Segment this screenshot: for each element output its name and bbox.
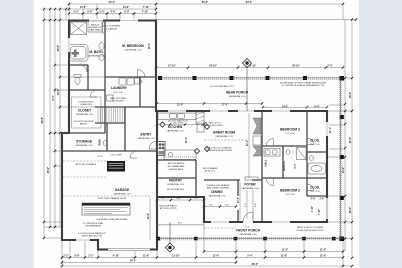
windows (white gaps w/ thin lines on walls) [68,19,328,241]
right dim line 1 [344,20,346,252]
mbath toilet [99,43,104,50]
svg-text:ABOVE: ABOVE [80,123,88,126]
diamond island [194,148,199,153]
foyer niche [245,177,258,180]
porch columns [157,76,345,241]
laundry sink cab [135,78,140,84]
ticks bottom row2 [61,256,344,258]
svg-text:7'-4": 7'-4" [327,65,332,68]
svg-text:25'-4": 25'-4" [57,45,60,52]
svg-text:11'-0": 11'-0" [281,255,287,258]
closet door arc [90,90,97,97]
wall: mbedroom south [105,76,156,78]
great room interior dim line [248,113,250,178]
bath3 toilet [286,149,290,154]
window bedroom2 front [272,221,290,223]
svg-text:11'-0": 11'-0" [320,255,326,258]
svg-text:13'-4": 13'-4" [57,89,60,96]
svg-text:CATHEDRAL CLG: CATHEDRAL CLG [75,144,93,147]
pwr toilet [103,140,107,145]
svg-text:CLOS.: CLOS. [310,139,320,143]
exterior wall: rear (great room + bedroom wing) [156,110,328,112]
foyer interior dim line [239,182,241,220]
tub faucet [72,50,80,58]
window garage front [76,239,90,241]
svg-text:17'-10": 17'-10" [168,65,176,68]
diamond marker front porch [166,222,175,252]
diamond kitchen right [204,124,209,129]
wall: laundry east [139,77,141,107]
svg-text:HALL: HALL [264,159,268,166]
foyer dim v3 [252,190,254,219]
svg-text:20'-2": 20'-2" [247,140,249,146]
column NE corner [340,76,345,81]
left dim line 5 [65,9,67,20]
svg-text:9'-0" CLG: 9'-0" CLG [286,133,295,135]
keynote diamonds kitchen [160,122,210,154]
svg-text:17'-0": 17'-0" [222,103,229,106]
kitchen inner dim row [157,124,204,126]
svg-text:WOOD SHELVES: WOOD SHELVES [167,189,184,191]
svg-text:FOYER: FOYER [244,183,256,187]
diamond kitchen wall [160,122,165,127]
wall: pwr east [106,123,108,151]
ticks bottom row1 [203,250,344,252]
svg-text:12'-4": 12'-4" [329,127,332,133]
mbath linen cab [103,22,106,33]
wall: entry west [124,107,126,151]
top extension verticals [68,4,70,20]
column east 3 [340,196,344,200]
svg-text:LAUNDRY: LAUNDRY [111,86,128,90]
wall: dining/foyer divider lower [237,210,239,222]
top dim line row1 [69,3,343,5]
svg-text:5'-4": 5'-4" [245,226,249,228]
front door arc [243,212,253,222]
column SE corner [340,237,345,242]
svg-text:BRICK & ROCK COLUMNS: BRICK & ROCK COLUMNS [297,227,323,229]
mbath note box [88,22,102,33]
wall: bedrooms east divider [306,111,308,196]
svg-text:34'-0": 34'-0" [246,1,253,4]
svg-text:KITCHEN: KITCHEN [168,125,183,129]
exterior wall: garage step [97,239,99,251]
svg-text:CATHEDRAL CLG: CATHEDRAL CLG [208,195,226,198]
svg-text:ATTIC A/C FURNACE: ATTIC A/C FURNACE [76,163,97,166]
svg-text:2'-2": 2'-2" [63,255,68,258]
svg-text:6'-8": 6'-8" [255,203,257,207]
svg-text:86'-0": 86'-0" [252,263,259,266]
svg-text:AT PORCH (TYP): AT PORCH (TYP) [160,207,177,210]
bath2 toilet [310,155,314,160]
wall: toilet room east [87,65,89,90]
column rear 2 [193,76,197,80]
svg-text:CATHEDRAL CLG: CATHEDRAL CLG [124,49,142,52]
entry kitchen arc [149,141,157,149]
diamond marker rear porch [243,59,252,112]
ticks left top header [43,8,67,10]
bottom dim line 3 [62,262,236,264]
window mbath north [89,19,103,21]
porch step line [157,224,204,226]
mbath sink [99,55,104,61]
svg-text:5'-0": 5'-0" [295,164,297,169]
svg-text:26'-0": 26'-0" [349,207,352,214]
wall: mbath south / toilet room [69,64,88,66]
svg-text:24'-4": 24'-4" [130,260,137,263]
left dim line 3 [54,9,56,227]
front porch inner step [157,224,204,226]
svg-text:6'-0": 6'-0" [124,11,129,14]
wall: mbath/mbedroom divider [104,20,106,133]
foyer porch dashes [204,227,236,229]
bath3 shower [297,148,307,160]
svg-text:STORAGE: STORAGE [76,140,93,144]
svg-text:RAIN HEAD: RAIN HEAD [89,29,101,32]
column front 6 [332,237,336,241]
island [164,150,196,160]
svg-text:16'x8' OVHD GARAGE DOOR: 16'x8' OVHD GARAGE DOOR [98,197,127,200]
bottom dim line 2 [62,257,343,259]
bedroom dim row line [262,106,327,108]
column front 3 [234,237,238,241]
interior dim rows [150,68,343,241]
exterior wall: garage south-west [61,239,98,241]
column rear 3 [230,76,234,80]
svg-text:6'-4": 6'-4" [314,105,319,108]
ticks top row3 [68,12,157,14]
rotated interior dims [148,43,332,219]
wall: pantry east [195,160,197,197]
column front 1 [157,237,161,241]
left dim line 2 [49,9,51,227]
svg-text:GARAGE: GARAGE [115,188,130,192]
wall: storage south / garage north [62,150,157,152]
toilet room door arc [80,65,87,72]
wall: closet north [69,89,105,91]
svg-text:14'-8": 14'-8" [282,105,289,108]
svg-text:4'-10": 4'-10" [113,255,120,258]
ticks top row1 [68,3,344,5]
svg-text:BRICK ABOVE (TYP): BRICK ABOVE (TYP) [82,235,102,238]
svg-text:2'-0": 2'-0" [161,198,165,200]
svg-text:2'-8": 2'-8" [320,199,325,201]
svg-text:CATHEDRAL CLG: CATHEDRAL CLG [166,130,184,133]
tub [69,45,89,62]
wc toilet [75,78,80,85]
ticks dining bay row [203,205,237,207]
svg-text:W/ SPLASH: W/ SPLASH [112,100,124,103]
svg-text:9'-0" CLG: 9'-0" CLG [311,144,320,146]
exterior wall: garage front right pier [150,248,158,250]
window greatroom rear 2 [210,110,228,112]
svg-text:5'-0": 5'-0" [99,11,104,14]
window greatroom rear 1 [168,110,186,112]
wall: laundry south [95,106,156,108]
extension dining bay [203,223,205,252]
right extension horizontals [327,110,352,112]
svg-text:FIREPLACE W/ BLOCKING: FIREPLACE W/ BLOCKING [206,149,232,152]
svg-text:GREAT ROOM: GREAT ROOM [213,131,235,135]
svg-text:BEDROOM 2: BEDROOM 2 [280,189,300,193]
ticks left column [43,19,45,239]
entry garage door arc [130,151,137,158]
svg-text:CATHEDRAL CLG: CATHEDRAL CLG [87,55,105,58]
svg-text:9'-0" CLG: 9'-0" CLG [114,92,123,94]
column east 2 [340,155,344,159]
svg-text:11'-10": 11'-10" [172,255,180,258]
svg-text:CATHEDRAL CLG: CATHEDRAL CLG [137,137,155,140]
fireplace [253,136,261,145]
svg-text:16'-2": 16'-2" [149,43,151,49]
wall: bath3 south / bedroom2 north [262,177,327,179]
left extension horizontals [44,19,69,21]
svg-text:8'-10": 8'-10" [250,65,257,68]
wall: hall/greatroom east [261,111,263,222]
svg-text:10'x14' COFFERED: 10'x14' COFFERED [102,26,121,28]
svg-text:CLOSET: CLOSET [78,109,91,113]
svg-text:CATHEDRAL CLG: CATHEDRAL CLG [239,233,257,236]
svg-text:SHIPLAP BACK: SHIPLAP BACK [169,168,185,171]
svg-text:3'-0": 3'-0" [245,203,247,207]
east porch slab edge [339,77,341,240]
pantry dim row [157,199,204,201]
column front 5 [302,237,306,241]
exterior wall: master block east [155,20,157,113]
ticks pantry row [156,199,205,201]
top dim line row2 [69,8,156,10]
wall: mud south [157,159,196,161]
svg-text:BEDROOM 3: BEDROOM 3 [280,128,300,132]
svg-text:THICKENED SLAB (SEE DETAIL): THICKENED SLAB (SEE DETAIL) [96,218,128,221]
bath2 tub [308,163,326,174]
svg-text:CATHEDRAL CLG: CATHEDRAL CLG [228,95,246,98]
svg-text:4'-0": 4'-0" [73,11,78,14]
bottom dim line 4 [62,265,352,267]
svg-text:12'-4": 12'-4" [177,103,184,106]
exterior wall: garage front left pier [97,248,108,250]
exterior wall: east [326,110,328,198]
svg-text:CATHEDRAL CLG: CATHEDRAL CLG [113,193,131,196]
diamond great room [204,146,209,151]
svg-text:7'-10": 7'-10" [142,11,149,14]
svg-text:AT 48" O.C.: AT 48" O.C. [205,170,216,173]
svg-text:4'-4": 4'-4" [110,11,115,14]
column rear 5 [303,76,307,80]
svg-text:BATH 3: BATH 3 [282,161,286,171]
wall: dining/foyer divider upper [237,180,239,196]
column rear 1 [158,76,162,80]
exterior wall: pantry south [156,196,204,198]
svg-text:56'-8": 56'-8" [202,1,209,4]
svg-text:13'-2": 13'-2" [186,137,188,143]
wall: clos2 south [307,195,327,197]
front door opening [243,221,253,223]
ticks rear porch dim row [155,66,344,68]
window east bay [326,198,328,219]
bottom dim line 1 [204,251,343,253]
great room builtin lower [253,146,261,156]
exterior wall: east corner stub [326,219,328,223]
svg-text:& SHELVES: & SHELVES [80,104,92,106]
svg-text:M. BEDROOM: M. BEDROOM [122,44,144,48]
rear porch dim row line [156,67,343,69]
front porch slab edge [157,237,344,239]
garage interior dim line [149,198,151,240]
window dining front [211,221,229,223]
svg-text:8'-0": 8'-0" [178,223,182,225]
column front 4 [263,237,267,241]
bedroom2 door arc [266,178,274,186]
closet shelf inset [72,97,102,128]
svg-text:(2) 2x12 HDR ABV (TYP): (2) 2x12 HDR ABV (TYP) [210,85,234,88]
exterior wall: left upper [68,20,70,135]
svg-text:14'-8": 14'-8" [123,6,130,9]
window bedroom3 rear [272,110,290,112]
svg-text:PWR.: PWR. [98,138,102,145]
wall: bedroom3 south [262,145,307,147]
svg-text:CATHEDRAL CLG: CATHEDRAL CLG [76,113,94,116]
svg-text:REAR PORCH: REAR PORCH [226,91,249,95]
svg-text:2'-2": 2'-2" [88,255,93,258]
svg-text:5'-8": 5'-8" [74,255,79,258]
ticks bottom row4 [61,265,353,267]
entry closet hatch [98,108,124,122]
svg-text:29'-10": 29'-10" [292,65,300,68]
exterior wall: garage east / porch west [156,110,158,251]
svg-text:STONE CAP W/ 10x10 POST: STONE CAP W/ 10x10 POST [296,229,324,232]
svg-text:66'-8": 66'-8" [41,117,44,124]
laundry cab [107,95,114,101]
svg-text:ENTRY: ENTRY [141,133,153,137]
svg-text:CLG ABOVE: CLG ABOVE [105,28,118,31]
right dim line 2 [351,20,353,259]
svg-text:5 3/4" STEP: 5 3/4" STEP [110,155,122,157]
svg-text:DINING: DINING [211,190,223,194]
svg-text:CLOS.: CLOS. [310,186,320,190]
wall: bath3 divider [282,146,284,178]
svg-text:10'-8": 10'-8" [80,6,87,9]
great room builtin upper [253,118,261,134]
foyer dim v2 [246,190,248,219]
svg-text:PANTRY: PANTRY [169,179,183,183]
left dim line 4 [59,9,61,227]
window mbedroom west [68,38,70,52]
mbedroom door arc [138,70,146,78]
exterior wall: master block north [68,19,157,21]
garage note box [82,203,130,215]
garage keynote black box [107,161,125,172]
shower [71,22,87,35]
kitchen fridge hatched [196,112,204,132]
svg-text:OUTLET & BLOCKING: OUTLET & BLOCKING [201,125,223,127]
dining bay dim row [204,206,236,208]
ticks kitchen inner row [156,123,205,125]
porch beam lines [156,78,343,239]
wall: kitchen/pantry divider [157,177,196,179]
kitchen range [158,142,166,156]
svg-text:6'-2": 6'-2" [225,205,229,207]
column rear 4 [266,76,270,80]
dimension tick marks [43,3,357,267]
clos2 door arc [307,184,314,191]
exterior wall: storage step [62,132,70,134]
exterior wall: front [203,221,327,223]
laundry washer dryer [119,78,126,85]
svg-text:W/ CUBBIES ABV: W/ CUBBIES ABV [168,165,185,168]
svg-text:22'-4": 22'-4" [349,137,352,144]
ticks bottom row3 [61,261,237,263]
great room ceiling dashed [204,139,246,141]
svg-text:CATHEDRAL CLG: CATHEDRAL CLG [241,187,259,190]
column front 2 [194,237,198,241]
svg-text:4" CONCRETE SLAB W/ FIBERMESH: 4" CONCRETE SLAB W/ FIBERMESH (TYP) [282,84,324,87]
svg-text:7'-10": 7'-10" [143,6,150,9]
svg-text:FRONT PORCH: FRONT PORCH [236,229,260,233]
svg-text:25'-4": 25'-4" [109,1,116,4]
svg-text:18'-4": 18'-4" [349,92,352,99]
svg-text:7'-10": 7'-10" [319,209,321,215]
svg-text:2'-0": 2'-0" [311,199,316,201]
exterior wall: dining bay west [203,196,205,223]
window mbedroom north [120,19,138,21]
svg-text:CATHEDRAL CLG: CATHEDRAL CLG [215,135,233,138]
exterior wall: garage west [61,132,63,241]
bottom extension verticals [61,240,63,266]
window east wall [326,122,328,136]
svg-text:9'-0" CLG: 9'-0" CLG [286,194,295,196]
svg-text:22'-8": 22'-8" [148,213,150,219]
bath3 vanity [264,149,280,157]
svg-text:22'-4": 22'-4" [97,156,103,158]
svg-text:6'-8": 6'-8" [87,11,92,14]
left dim line 1 [43,9,45,238]
svg-text:5'-4": 5'-4" [247,255,252,258]
svg-text:11'-0": 11'-0" [320,249,326,252]
left dim top ticks row [44,8,69,10]
window greatroom rear 3 [238,110,254,112]
svg-text:8'-4": 8'-4" [52,95,55,100]
ticks top row2 [68,8,157,10]
svg-text:BUILT-IN BENCH: BUILT-IN BENCH [168,163,185,165]
garage door opening [108,249,150,251]
svg-text:ABV CASED OPENING: ABV CASED OPENING [207,187,229,190]
svg-text:4'-10": 4'-10" [311,206,314,212]
garage ceiling dashed lines [63,140,246,228]
wall: clos3 south [307,151,327,153]
svg-text:11'-0": 11'-0" [282,249,288,252]
svg-text:UNO (TYP): UNO (TYP) [173,123,184,125]
ticks bedroom dim row [262,106,328,108]
wall: dining/greatroom divider column [204,179,240,181]
kitchen counter [158,113,196,120]
column east 1 [340,115,344,119]
svg-text:CATHEDRAL CLG: CATHEDRAL CLG [167,183,185,186]
ticks kitchen dim row [156,102,263,104]
svg-text:24'-10": 24'-10" [209,65,217,68]
svg-text:9'-0" CLG: 9'-0" CLG [311,191,320,193]
svg-text:2'-0": 2'-0" [194,198,198,200]
wall: foyer north [252,179,262,181]
kitchen dim row line [157,103,262,105]
svg-text:11'-0": 11'-0" [213,255,219,258]
ticks right column [344,77,346,240]
svg-text:16'-0": 16'-0" [342,167,345,174]
svg-text:W/ FIBERMESH: W/ FIBERMESH [85,226,101,228]
wall: closet hatch south [95,122,125,124]
svg-text:M. BATH: M. BATH [89,50,103,54]
top dim line row3 [69,13,156,15]
